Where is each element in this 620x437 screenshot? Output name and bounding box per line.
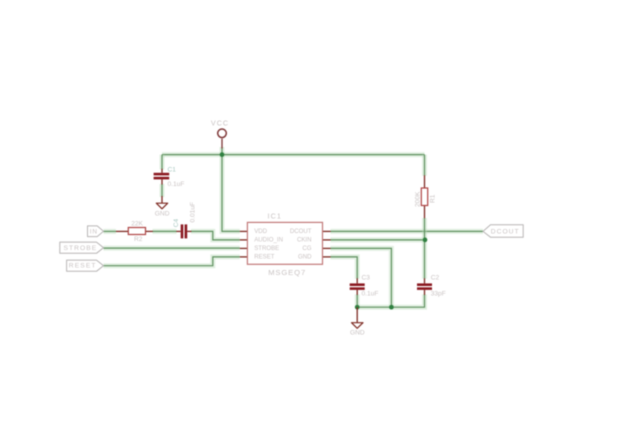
svg-text:0.1uF: 0.1uF bbox=[168, 181, 185, 188]
svg-text:0.01uF: 0.01uF bbox=[189, 202, 196, 223]
junction CKIN node bbox=[423, 238, 428, 243]
svg-text:R1: R1 bbox=[430, 194, 437, 203]
svg-text:STROBE: STROBE bbox=[254, 245, 279, 252]
svg-text:22K: 22K bbox=[131, 220, 143, 227]
wire top bus to R1 bbox=[422, 155, 427, 176]
wire C3 to ground bus bbox=[355, 294, 360, 307]
svg-text:C1: C1 bbox=[168, 166, 177, 173]
wire RESET flag to RESET pin bbox=[104, 257, 240, 266]
wire C2 to ground bus bbox=[391, 294, 424, 307]
pin flag RESET bbox=[67, 260, 104, 271]
svg-text:200K: 200K bbox=[415, 191, 422, 207]
wire R1 to CKIN node bbox=[422, 218, 427, 240]
svg-text:RESET: RESET bbox=[69, 263, 97, 270]
capacitor C2 bbox=[417, 274, 446, 297]
junction C3 ground node bbox=[355, 305, 360, 310]
svg-text:C2: C2 bbox=[431, 274, 440, 281]
wire VCC top bus bbox=[162, 152, 425, 157]
wire STROBE flag to STROBE pin bbox=[104, 246, 240, 251]
resistor R2 bbox=[116, 220, 153, 243]
svg-text:C4: C4 bbox=[173, 219, 180, 228]
wire ground bus bbox=[357, 305, 391, 310]
pin flag STROBE bbox=[60, 242, 104, 253]
supply VCC bbox=[211, 119, 229, 149]
svg-text:GND: GND bbox=[155, 211, 170, 218]
wire CG pin to ground bus bbox=[331, 248, 392, 307]
pin flag IN bbox=[88, 226, 104, 237]
wire C1 to top bus bbox=[160, 155, 165, 170]
capacitor C4 bbox=[173, 202, 197, 238]
pin flag DCOUT bbox=[483, 225, 523, 237]
svg-text:C3: C3 bbox=[362, 274, 371, 281]
svg-text:MSGEQ7: MSGEQ7 bbox=[268, 268, 306, 277]
svg-text:DCOUT: DCOUT bbox=[491, 228, 520, 235]
wire CKIN pin to node bbox=[331, 237, 426, 242]
wire VCC to VDD pin bbox=[222, 147, 240, 231]
svg-text:STROBE: STROBE bbox=[64, 245, 98, 252]
svg-text:DCOUT: DCOUT bbox=[290, 228, 312, 235]
svg-text:CKIN: CKIN bbox=[297, 236, 312, 243]
junction CG ground node bbox=[389, 305, 394, 310]
wire C4 to AUDIO_IN pin bbox=[191, 231, 240, 240]
capacitor C3 bbox=[350, 274, 379, 297]
svg-text:IN: IN bbox=[90, 229, 98, 236]
wire R2 to C4 bbox=[153, 229, 177, 234]
ground GND2 bbox=[350, 307, 365, 336]
junction VCC node bbox=[220, 152, 225, 157]
svg-text:0.1uF: 0.1uF bbox=[362, 290, 379, 297]
svg-text:RESET: RESET bbox=[254, 253, 275, 260]
svg-text:AUDIO_IN: AUDIO_IN bbox=[254, 236, 283, 243]
wire GND pin to C3 bbox=[331, 257, 358, 279]
svg-text:GND: GND bbox=[350, 329, 365, 336]
IC U1 MSGEQ7 bbox=[240, 212, 331, 278]
capacitor C1 bbox=[154, 166, 185, 188]
wire C1 to GND1 bbox=[160, 184, 165, 197]
svg-text:IC1: IC1 bbox=[268, 212, 283, 221]
svg-text:VCC: VCC bbox=[211, 119, 229, 128]
svg-text:33pF: 33pF bbox=[431, 290, 446, 297]
svg-text:VDD: VDD bbox=[254, 228, 267, 235]
wire DCOUT pin to DCOUT flag bbox=[331, 229, 484, 234]
svg-text:GND: GND bbox=[298, 253, 312, 260]
svg-text:R2: R2 bbox=[134, 236, 143, 243]
resistor R1 bbox=[415, 175, 437, 218]
ground GND1 bbox=[155, 196, 170, 218]
wire IN flag to R2 bbox=[104, 229, 117, 234]
wire CKIN node to C2 bbox=[422, 240, 427, 279]
svg-text:CG: CG bbox=[302, 245, 311, 252]
